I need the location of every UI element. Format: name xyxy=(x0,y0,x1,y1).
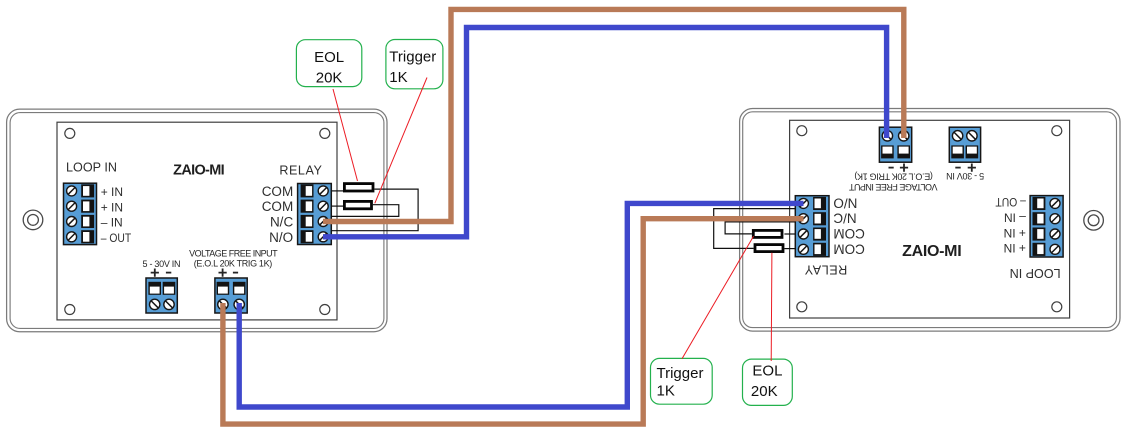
left module: wall plate outer edge xyxy=(7,109,387,332)
wire blue: left relay N/O to right voltage-free input - xyxy=(323,28,887,237)
callout line: EOL 20K (top) to left EOL resistor xyxy=(333,89,358,181)
right module: wall plate outer edge xyxy=(740,109,1120,332)
svg-text:COM: COM xyxy=(833,226,865,241)
left module: PCB mounting hole 2 xyxy=(320,128,330,138)
resistor Trigger 1K (left module) xyxy=(344,201,371,208)
callout box EOL 20K (bottom) xyxy=(743,359,793,405)
svg-text:N/C: N/C xyxy=(833,211,857,226)
svg-text:+ IN: + IN xyxy=(101,200,123,214)
wire: resistor R-TRIG-left to left N/C terminal xyxy=(331,205,399,217)
svg-text:Trigger: Trigger xyxy=(389,49,436,66)
svg-text:COM: COM xyxy=(262,184,294,199)
wire: resistor R-TRIG-right to right N/C terminal xyxy=(725,222,796,234)
svg-text:5 - 30V IN: 5 - 30V IN xyxy=(946,171,984,181)
callout line: EOL 20K (bottom) to right EOL resistor xyxy=(770,253,773,361)
right module: terminal block 5-30V IN (2-way) xyxy=(949,127,980,162)
svg-text:– OUT: – OUT xyxy=(101,231,132,245)
svg-text:LOOP IN: LOOP IN xyxy=(1010,266,1061,280)
callout box Trigger 1K (top) xyxy=(386,40,443,89)
right module: wall plate inner edge xyxy=(743,112,1117,328)
left module: wall plate inner edge xyxy=(10,113,384,329)
right module: terminal block RELAY (4-way) xyxy=(795,196,829,257)
callout line: Trigger 1K (bottom) to right Trigger resistor xyxy=(682,236,754,359)
left module: terminal block LOOP IN (4-way) xyxy=(64,183,97,244)
left module: terminal block VOLTAGE FREE INPUT (2-way) xyxy=(215,278,247,313)
svg-text:– IN: – IN xyxy=(101,216,123,230)
wire brown: left voltage-free input + to right relay N/C xyxy=(223,219,804,424)
left ZAIO-MI module xyxy=(7,109,387,332)
svg-text:+ IN: + IN xyxy=(101,185,123,199)
callout line: Trigger 1K (top) to left Trigger resistor xyxy=(375,78,427,204)
left module: PCB outline xyxy=(57,122,337,320)
wire blue: left voltage-free input - to right relay N/O xyxy=(239,203,803,407)
right module: PCB mounting hole 1 xyxy=(1052,302,1062,312)
right ZAIO-MI module (rotated 180°) xyxy=(740,109,1120,332)
resistor EOL 20K (right module) xyxy=(755,245,783,252)
svg-text:VOLTAGE FREE INPUT: VOLTAGE FREE INPUT xyxy=(189,248,278,258)
wire: left COM2 to resistor R-TRIG-left xyxy=(331,205,344,207)
left module: PCB mounting hole 3 xyxy=(65,305,75,315)
svg-text:– OUT: – OUT xyxy=(995,195,1026,209)
left module: PCB mounting hole 1 xyxy=(65,128,75,138)
resistor Trigger 1K (right module) xyxy=(753,230,782,237)
callout box Trigger 1K (bottom) xyxy=(651,358,713,404)
svg-text:Trigger: Trigger xyxy=(657,365,704,382)
svg-text:N/C: N/C xyxy=(270,215,294,230)
svg-text:EOL: EOL xyxy=(752,363,782,380)
left module: terminal block RELAY (4-way) xyxy=(298,184,332,245)
svg-text:1K: 1K xyxy=(389,69,407,86)
svg-text:RELAY: RELAY xyxy=(804,263,847,277)
right module: terminal block VOLTAGE FREE INPUT (2-way) xyxy=(879,127,911,162)
svg-text:ZAIO-MI: ZAIO-MI xyxy=(902,243,962,260)
right module: PCB outline xyxy=(790,120,1070,318)
wire: left COM1 to resistor R-EOL-left xyxy=(331,190,344,192)
wire brown: left relay N/C to right voltage-free input + xyxy=(323,9,904,221)
resistor EOL 20K (left module) xyxy=(344,184,373,191)
svg-text:(E.O.L 20K TRIG 1K): (E.O.L 20K TRIG 1K) xyxy=(854,172,933,182)
svg-text:(E.O.L 20K TRIG 1K): (E.O.L 20K TRIG 1K) xyxy=(194,259,273,269)
right module: terminal block LOOP IN (4-way) xyxy=(1030,196,1063,257)
svg-text:ZAIO-MI: ZAIO-MI xyxy=(173,163,225,179)
right module: polarity marks 5-30V IN + - xyxy=(955,164,976,172)
left module: terminal block 5-30V IN (2-way) xyxy=(146,278,177,313)
svg-text:+ IN: + IN xyxy=(1004,226,1026,240)
svg-text:N/O: N/O xyxy=(833,195,857,210)
svg-text:EOL: EOL xyxy=(314,49,344,66)
svg-text:+ IN: + IN xyxy=(1004,241,1026,255)
right module: plate screw hole xyxy=(1084,211,1104,231)
svg-text:N/O: N/O xyxy=(269,230,293,245)
right module: PCB mounting hole 3 xyxy=(1052,126,1062,136)
callout box EOL 20K (top) xyxy=(296,40,361,87)
svg-text:RELAY: RELAY xyxy=(279,164,322,178)
left module: plate screw hole xyxy=(23,210,43,230)
svg-text:COM: COM xyxy=(833,241,865,256)
svg-text:LOOP IN: LOOP IN xyxy=(66,160,117,174)
svg-text:5 - 30V IN: 5 - 30V IN xyxy=(143,259,181,269)
left module: polarity marks 5-30V IN + - xyxy=(151,269,172,277)
svg-text:20K: 20K xyxy=(316,70,343,87)
right module: PCB mounting hole 4 xyxy=(797,126,807,136)
wire: right COM3 to resistor R-TRIG-right xyxy=(784,233,796,235)
svg-text:– IN: – IN xyxy=(1004,211,1026,225)
left module: polarity marks VFI + - xyxy=(219,269,239,277)
left module: PCB mounting hole 4 xyxy=(320,305,330,315)
wire: resistor R-EOL-right to right N/O terminal xyxy=(714,209,796,249)
svg-text:1K: 1K xyxy=(657,383,675,400)
wire: right COM4 to resistor R-EOL-right xyxy=(784,248,796,250)
svg-text:20K: 20K xyxy=(751,383,778,400)
svg-text:VOLTAGE FREE INPUT: VOLTAGE FREE INPUT xyxy=(848,182,937,192)
svg-text:COM: COM xyxy=(262,199,294,214)
wire: resistor R-EOL-left to left N/O terminal xyxy=(331,189,418,231)
right module: PCB mounting hole 2 xyxy=(797,302,807,312)
right module: polarity marks VFI + - xyxy=(889,164,909,172)
